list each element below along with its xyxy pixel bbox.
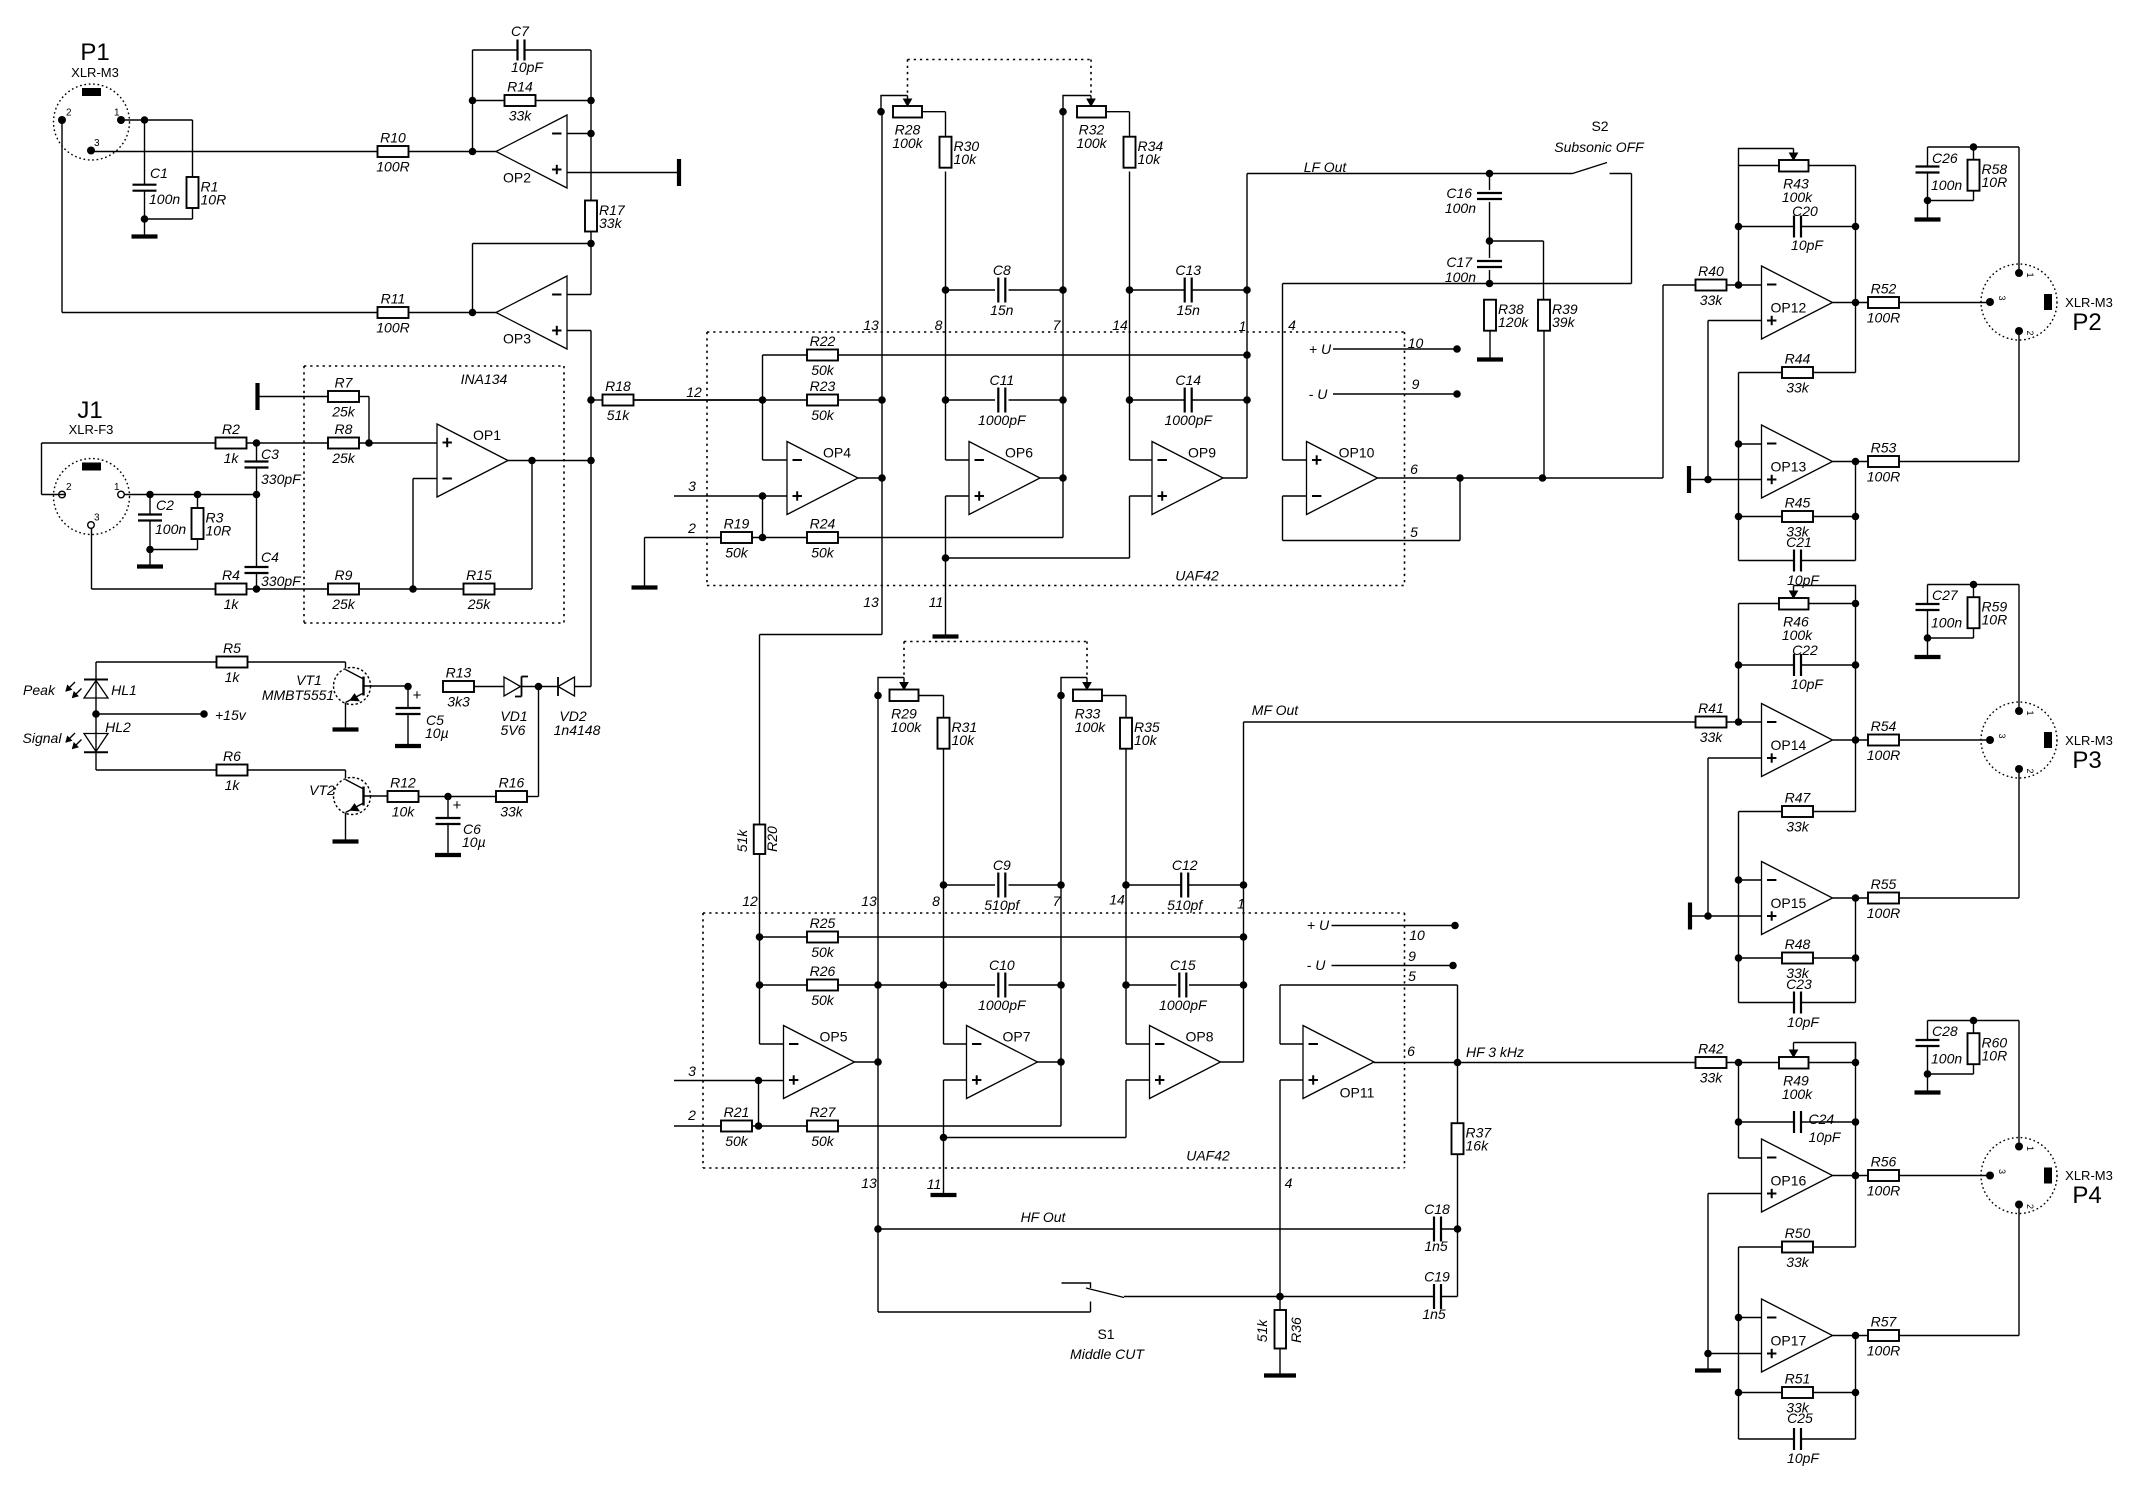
svg-text:10R: 10R	[1982, 1048, 2008, 1064]
svg-text:510pf: 510pf	[984, 897, 1021, 913]
svg-text:S1: S1	[1097, 1326, 1114, 1342]
svg-text:1: 1	[1237, 896, 1245, 912]
svg-text:100n: 100n	[1931, 177, 1962, 193]
svg-text:100R: 100R	[376, 320, 409, 336]
svg-text:OP17: OP17	[1771, 1333, 1807, 1349]
svg-text:R14: R14	[507, 79, 533, 95]
svg-text:33k: 33k	[1700, 292, 1724, 308]
svg-text:10R: 10R	[206, 523, 232, 539]
svg-text:11: 11	[927, 1176, 942, 1192]
svg-text:R6: R6	[223, 748, 241, 764]
svg-text:R47: R47	[1785, 790, 1812, 806]
svg-text:C17: C17	[1446, 254, 1473, 270]
svg-text:+ U: + U	[1307, 917, 1330, 933]
svg-text:100k: 100k	[1782, 1086, 1813, 1102]
svg-text:R7: R7	[335, 375, 354, 391]
svg-text:C7: C7	[511, 23, 530, 39]
svg-text:100n: 100n	[1931, 615, 1962, 631]
svg-text:P2: P2	[2072, 309, 2101, 336]
svg-text:XLR-M3: XLR-M3	[2065, 295, 2113, 310]
svg-text:1k: 1k	[224, 596, 240, 612]
svg-text:100R: 100R	[1867, 905, 1900, 921]
svg-text:330pF: 330pF	[261, 573, 302, 589]
svg-text:5: 5	[1408, 968, 1416, 984]
svg-text:R10: R10	[380, 130, 406, 146]
svg-text:C22: C22	[1792, 642, 1818, 658]
svg-text:1000pF: 1000pF	[1164, 412, 1213, 428]
svg-text:10pF: 10pF	[1791, 237, 1824, 253]
svg-text:6: 6	[1410, 461, 1418, 477]
svg-text:P3: P3	[2072, 747, 2101, 774]
svg-text:R44: R44	[1785, 351, 1811, 367]
svg-text:51k: 51k	[607, 407, 631, 423]
svg-text:15n: 15n	[990, 302, 1014, 318]
svg-text:P4: P4	[2072, 1182, 2101, 1209]
svg-text:Subsonic OFF: Subsonic OFF	[1554, 139, 1645, 155]
svg-text:7: 7	[1053, 317, 1062, 333]
svg-text:2: 2	[66, 482, 72, 493]
svg-text:1: 1	[114, 108, 120, 119]
svg-text:MF Out: MF Out	[1252, 702, 1300, 718]
svg-text:C8: C8	[993, 262, 1011, 278]
svg-text:R48: R48	[1785, 936, 1811, 952]
svg-text:R13: R13	[446, 665, 472, 681]
svg-text:C2: C2	[156, 497, 174, 513]
svg-text:100R: 100R	[376, 159, 409, 175]
svg-text:OP1: OP1	[473, 427, 501, 443]
svg-text:100k: 100k	[891, 719, 922, 735]
svg-text:UAF42: UAF42	[1186, 1148, 1230, 1164]
svg-text:10k: 10k	[1138, 151, 1162, 167]
svg-text:1000pF: 1000pF	[1159, 997, 1208, 1013]
svg-text:C16: C16	[1446, 185, 1472, 201]
svg-text:1n5: 1n5	[1424, 1238, 1448, 1254]
svg-text:R50: R50	[1785, 1225, 1811, 1241]
svg-text:C20: C20	[1792, 203, 1818, 219]
svg-text:R53: R53	[1871, 440, 1897, 456]
svg-text:10k: 10k	[954, 151, 978, 167]
svg-text:OP9: OP9	[1188, 445, 1216, 461]
svg-text:6: 6	[1407, 1043, 1415, 1059]
svg-text:33k: 33k	[509, 108, 533, 124]
svg-text:Middle CUT: Middle CUT	[1070, 1346, 1145, 1362]
svg-text:2: 2	[66, 108, 72, 119]
svg-text:R51: R51	[1785, 1371, 1811, 1387]
svg-text:50k: 50k	[811, 992, 835, 1008]
svg-text:510pf: 510pf	[1167, 897, 1204, 913]
svg-text:R57: R57	[1871, 1314, 1898, 1330]
svg-text:VT2: VT2	[309, 782, 335, 798]
svg-text:100R: 100R	[1867, 310, 1900, 326]
svg-text:10k: 10k	[1134, 732, 1158, 748]
svg-text:C25: C25	[1787, 1410, 1813, 1426]
svg-text:5V6: 5V6	[501, 722, 526, 738]
svg-text:16k: 16k	[1466, 1138, 1490, 1154]
svg-text:R20: R20	[764, 826, 780, 852]
svg-text:10pF: 10pF	[1791, 676, 1824, 692]
svg-text:Signal: Signal	[23, 730, 63, 746]
svg-text:C12: C12	[1172, 857, 1198, 873]
svg-text:100n: 100n	[1931, 1051, 1962, 1067]
svg-text:9: 9	[1412, 376, 1420, 392]
svg-text:OP7: OP7	[1002, 1029, 1030, 1045]
svg-text:10µ: 10µ	[425, 725, 449, 741]
svg-text:15n: 15n	[1177, 302, 1201, 318]
svg-text:13: 13	[861, 1175, 877, 1191]
svg-text:R36: R36	[1288, 1317, 1304, 1343]
svg-text:2: 2	[2025, 330, 2035, 335]
svg-text:+: +	[413, 687, 422, 704]
svg-text:12: 12	[686, 384, 702, 400]
svg-text:330pF: 330pF	[261, 471, 302, 487]
svg-text:J1: J1	[77, 397, 102, 424]
svg-text:1n5: 1n5	[1422, 1306, 1446, 1322]
svg-text:C21: C21	[1786, 534, 1812, 550]
svg-text:10: 10	[1409, 927, 1425, 943]
svg-text:OP15: OP15	[1771, 895, 1807, 911]
svg-text:1: 1	[2025, 710, 2035, 715]
svg-text:1k: 1k	[225, 669, 241, 685]
svg-text:R54: R54	[1871, 718, 1897, 734]
svg-text:INA134: INA134	[461, 371, 508, 387]
svg-text:LF Out: LF Out	[1304, 159, 1348, 175]
svg-text:XLR-M3: XLR-M3	[2065, 1168, 2113, 1183]
svg-text:R4: R4	[222, 567, 240, 583]
svg-text:R25: R25	[810, 915, 836, 931]
svg-text:OP5: OP5	[819, 1029, 847, 1045]
svg-text:HL1: HL1	[111, 682, 137, 698]
svg-text:XLR-M3: XLR-M3	[2065, 733, 2113, 748]
svg-text:OP6: OP6	[1005, 445, 1033, 461]
svg-text:51k: 51k	[734, 829, 750, 853]
svg-text:OP16: OP16	[1771, 1173, 1807, 1189]
svg-text:1n4148: 1n4148	[554, 722, 601, 738]
svg-text:13: 13	[863, 594, 879, 610]
svg-text:25k: 25k	[331, 404, 356, 420]
svg-text:R11: R11	[381, 291, 406, 307]
svg-text:50k: 50k	[811, 1133, 835, 1149]
svg-text:3: 3	[1997, 733, 2007, 738]
svg-text:33k: 33k	[599, 215, 623, 231]
svg-text:2: 2	[687, 1107, 696, 1123]
svg-text:10R: 10R	[201, 192, 227, 208]
svg-text:R12: R12	[390, 775, 416, 791]
svg-text:C11: C11	[989, 372, 1014, 388]
svg-text:OP13: OP13	[1771, 459, 1807, 475]
svg-text:100R: 100R	[1867, 747, 1900, 763]
svg-text:10pF: 10pF	[1787, 1014, 1820, 1030]
svg-text:14: 14	[1109, 892, 1125, 908]
svg-text:2: 2	[2025, 1204, 2035, 1209]
svg-text:R15: R15	[466, 567, 492, 583]
svg-text:100n: 100n	[149, 191, 180, 207]
svg-text:33k: 33k	[500, 804, 524, 820]
svg-text:10pF: 10pF	[511, 59, 544, 75]
svg-text:50k: 50k	[811, 944, 835, 960]
svg-text:100k: 100k	[1782, 627, 1813, 643]
svg-text:1: 1	[114, 482, 120, 493]
svg-text:HL2: HL2	[105, 719, 131, 735]
svg-text:C18: C18	[1424, 1201, 1450, 1217]
svg-text:R21: R21	[724, 1104, 750, 1120]
svg-text:10pF: 10pF	[1787, 1450, 1820, 1466]
svg-text:10R: 10R	[1982, 174, 2008, 190]
svg-text:OP10: OP10	[1339, 445, 1375, 461]
svg-text:1000pF: 1000pF	[978, 412, 1027, 428]
svg-text:25k: 25k	[331, 450, 356, 466]
svg-text:1k: 1k	[225, 777, 241, 793]
svg-text:1000pF: 1000pF	[978, 997, 1027, 1013]
svg-text:120k: 120k	[1498, 314, 1529, 330]
svg-text:3: 3	[94, 513, 100, 524]
svg-text:14: 14	[1112, 317, 1128, 333]
svg-text:100k: 100k	[1075, 719, 1106, 735]
svg-text:C19: C19	[1424, 1269, 1450, 1285]
svg-text:C15: C15	[1170, 957, 1196, 973]
svg-text:39k: 39k	[1552, 314, 1576, 330]
svg-text:C24: C24	[1809, 1111, 1835, 1127]
svg-text:4: 4	[1288, 317, 1296, 333]
svg-text:R55: R55	[1871, 876, 1897, 892]
svg-text:13: 13	[863, 317, 879, 333]
svg-text:OP4: OP4	[823, 445, 851, 461]
svg-text:33k: 33k	[1786, 380, 1810, 396]
svg-text:10R: 10R	[1982, 612, 2008, 628]
svg-text:100n: 100n	[1445, 200, 1476, 216]
svg-text:UAF42: UAF42	[1175, 568, 1219, 584]
svg-text:10k: 10k	[392, 804, 416, 820]
svg-text:- U: - U	[1309, 386, 1329, 402]
svg-text:50k: 50k	[811, 407, 835, 423]
svg-text:R2: R2	[222, 421, 240, 437]
svg-text:25k: 25k	[467, 596, 492, 612]
svg-text:R45: R45	[1785, 495, 1811, 511]
svg-text:OP8: OP8	[1185, 1029, 1213, 1045]
svg-text:R5: R5	[223, 640, 241, 656]
svg-text:R41: R41	[1698, 700, 1724, 716]
svg-text:C27: C27	[1932, 587, 1959, 603]
svg-text:1: 1	[2025, 1146, 2035, 1151]
svg-text:100k: 100k	[1076, 135, 1107, 151]
svg-text:R27: R27	[810, 1104, 837, 1120]
svg-text:50k: 50k	[811, 545, 835, 561]
svg-text:5: 5	[1410, 524, 1418, 540]
svg-text:R42: R42	[1698, 1041, 1724, 1057]
svg-text:C1: C1	[150, 165, 168, 181]
svg-text:S2: S2	[1591, 118, 1608, 134]
svg-text:10µ: 10µ	[462, 834, 486, 850]
svg-text:R24: R24	[810, 516, 836, 532]
svg-text:8: 8	[932, 893, 940, 909]
svg-text:3: 3	[1997, 295, 2007, 300]
svg-text:33k: 33k	[1786, 1254, 1810, 1270]
svg-text:3: 3	[1997, 1169, 2007, 1174]
svg-text:100R: 100R	[1867, 1343, 1900, 1359]
svg-text:+: +	[453, 797, 462, 814]
svg-text:100n: 100n	[1445, 269, 1476, 285]
svg-text:13: 13	[861, 893, 877, 909]
svg-text:+15v: +15v	[215, 707, 247, 723]
svg-text:VT1: VT1	[296, 672, 322, 688]
svg-text:9: 9	[1408, 948, 1416, 964]
svg-text:P1: P1	[80, 39, 109, 66]
svg-text:R23: R23	[810, 378, 836, 394]
svg-text:R16: R16	[499, 775, 525, 791]
svg-text:C4: C4	[261, 549, 279, 565]
svg-text:R40: R40	[1698, 263, 1724, 279]
svg-text:XLR-M3: XLR-M3	[71, 65, 119, 80]
svg-text:2: 2	[2025, 768, 2035, 773]
svg-text:3k3: 3k3	[447, 694, 470, 710]
svg-text:C3: C3	[261, 446, 279, 462]
svg-text:50k: 50k	[811, 362, 835, 378]
svg-text:R22: R22	[810, 333, 836, 349]
svg-text:1k: 1k	[224, 450, 240, 466]
svg-text:C9: C9	[993, 857, 1011, 873]
svg-text:8: 8	[935, 317, 943, 333]
svg-text:3: 3	[688, 1063, 696, 1079]
svg-text:- U: - U	[1307, 957, 1327, 973]
svg-text:50k: 50k	[725, 545, 749, 561]
svg-text:R8: R8	[335, 421, 353, 437]
svg-text:HF Out: HF Out	[1021, 1209, 1067, 1225]
svg-text:C13: C13	[1175, 262, 1201, 278]
svg-text:R9: R9	[335, 567, 353, 583]
svg-text:1: 1	[1239, 318, 1247, 334]
svg-text:4: 4	[1285, 1175, 1293, 1191]
svg-text:10: 10	[1408, 335, 1424, 351]
svg-text:51k: 51k	[1254, 1319, 1270, 1343]
svg-text:C14: C14	[1175, 372, 1201, 388]
svg-text:R56: R56	[1871, 1154, 1897, 1170]
svg-text:33k: 33k	[1786, 819, 1810, 835]
svg-text:R18: R18	[605, 378, 631, 394]
svg-text:HF 3 kHz: HF 3 kHz	[1466, 1044, 1524, 1060]
svg-text:R26: R26	[810, 963, 836, 979]
svg-text:25k: 25k	[331, 596, 356, 612]
svg-text:100k: 100k	[892, 135, 923, 151]
svg-text:MMBT5551: MMBT5551	[262, 687, 334, 703]
svg-text:OP11: OP11	[1340, 1085, 1375, 1101]
svg-text:C23: C23	[1786, 976, 1812, 992]
svg-text:10k: 10k	[952, 732, 976, 748]
svg-text:1: 1	[2025, 272, 2035, 277]
svg-text:OP2: OP2	[503, 170, 531, 186]
svg-text:100n: 100n	[155, 521, 186, 537]
svg-text:C10: C10	[989, 957, 1015, 973]
svg-text:OP14: OP14	[1771, 737, 1807, 753]
svg-text:OP3: OP3	[503, 331, 531, 347]
svg-text:+ U: + U	[1309, 341, 1332, 357]
svg-text:XLR-F3: XLR-F3	[69, 422, 114, 437]
svg-text:R19: R19	[724, 516, 750, 532]
svg-text:33k: 33k	[1700, 1070, 1724, 1086]
svg-text:12: 12	[742, 893, 758, 909]
svg-text:7: 7	[1053, 893, 1062, 909]
svg-text:OP12: OP12	[1771, 300, 1807, 316]
svg-text:33k: 33k	[1700, 729, 1724, 745]
svg-text:2: 2	[687, 520, 696, 536]
svg-text:11: 11	[929, 594, 944, 610]
svg-text:C26: C26	[1932, 150, 1958, 166]
svg-text:3: 3	[94, 138, 100, 149]
svg-text:Peak: Peak	[23, 682, 56, 698]
svg-text:50k: 50k	[725, 1133, 749, 1149]
svg-text:10pF: 10pF	[1809, 1129, 1842, 1145]
svg-text:C28: C28	[1932, 1023, 1958, 1039]
svg-text:100R: 100R	[1867, 1183, 1900, 1199]
svg-text:R52: R52	[1871, 281, 1897, 297]
svg-text:100R: 100R	[1867, 469, 1900, 485]
svg-text:3: 3	[688, 478, 696, 494]
